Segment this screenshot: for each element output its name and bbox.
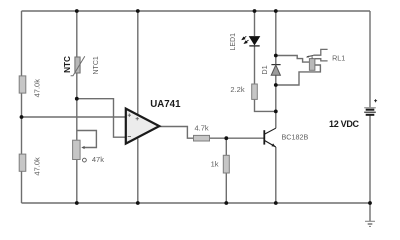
node bottom rail battery — [368, 201, 372, 205]
potentiometer 47k — [73, 140, 81, 159]
node relay bottom — [274, 83, 278, 87]
wire relay coil right return — [276, 65, 321, 85]
node bottom rail 1k — [224, 201, 228, 205]
svg-text:UA741: UA741 — [150, 99, 181, 110]
resistor R4 1k — [223, 155, 229, 173]
op-amp U1 UA741 — [126, 109, 160, 144]
wire left column — [21, 11, 23, 203]
ground — [365, 204, 375, 227]
svg-text:47.0k: 47.0k — [32, 79, 41, 98]
LED LED1 — [249, 36, 261, 45]
wire NTC to pot — [76, 73, 78, 140]
resistor R2 47.0k bottom — [19, 154, 26, 171]
wire 2.2k to collector node — [255, 99, 276, 111]
node top rail LED — [253, 9, 257, 13]
node A NTC/pot junction — [75, 97, 79, 101]
wire pot wiper loop — [77, 131, 97, 148]
battery B1 12 VDC — [364, 99, 377, 115]
wire op-amp V- supply — [137, 139, 139, 203]
node top rail collector column — [274, 9, 278, 13]
svg-text:2.2k: 2.2k — [230, 85, 244, 94]
relay RL1 coil — [309, 59, 315, 71]
wire LED column top — [254, 11, 256, 36]
wire emitter to bottom rail — [275, 147, 277, 203]
wire divider tap to non-inverting input — [22, 116, 126, 118]
svg-text:RL1: RL1 — [332, 53, 345, 62]
svg-text:D1: D1 — [260, 65, 269, 74]
wire bottom rail 0V — [22, 202, 371, 204]
wire battery column top — [369, 11, 371, 107]
wire op-amp output to 4.7k — [159, 127, 193, 139]
node base/1k — [224, 136, 228, 140]
svg-text:LED1: LED1 — [230, 33, 237, 51]
wire relay coil left — [276, 56, 310, 63]
relay RL1 switch — [306, 49, 328, 61]
node top rail NTC — [75, 9, 79, 13]
svg-text:4.7k: 4.7k — [195, 123, 209, 132]
wire op-amp V+ supply — [137, 11, 139, 115]
svg-text:47k: 47k — [92, 155, 104, 164]
transistor Q1 BC182B — [263, 130, 265, 144]
svg-text:47.0k: 47.0k — [32, 157, 41, 176]
svg-text:12 VDC: 12 VDC — [329, 119, 360, 129]
node bottom rail pot — [75, 201, 79, 205]
wire 4.7k to base node — [210, 137, 264, 139]
resistor R3 4.7k — [194, 135, 210, 141]
wire 1k top — [225, 138, 227, 155]
node relay top — [274, 54, 278, 58]
wire pot to bottom rail — [76, 160, 78, 204]
wire D1 anode to collector — [275, 75, 277, 128]
node collector/2.2k — [274, 110, 278, 114]
node top rail V+ — [136, 9, 140, 13]
wire LED to 2.2k — [254, 46, 256, 84]
svg-text:NTC: NTC — [63, 56, 72, 73]
node bottom rail emitter — [274, 201, 278, 205]
node bottom rail V- — [136, 201, 140, 205]
diode D1 — [271, 64, 280, 66]
thermistor NTC1 — [75, 57, 80, 73]
resistor R1 47.0k top — [19, 76, 26, 93]
svg-text:1k: 1k — [211, 160, 219, 169]
wire 1k bottom — [225, 173, 227, 203]
wire collector column — [275, 11, 277, 65]
wire NTC column top — [76, 11, 78, 57]
svg-text:BC182B: BC182B — [282, 133, 309, 142]
wire battery column bottom — [369, 115, 371, 203]
svg-text:NTC1: NTC1 — [93, 56, 100, 74]
wire node A to inverting input — [77, 99, 126, 138]
wire top rail +12V — [22, 10, 371, 12]
resistor R5 2.2k — [252, 84, 258, 99]
node divider tap — [20, 115, 24, 119]
